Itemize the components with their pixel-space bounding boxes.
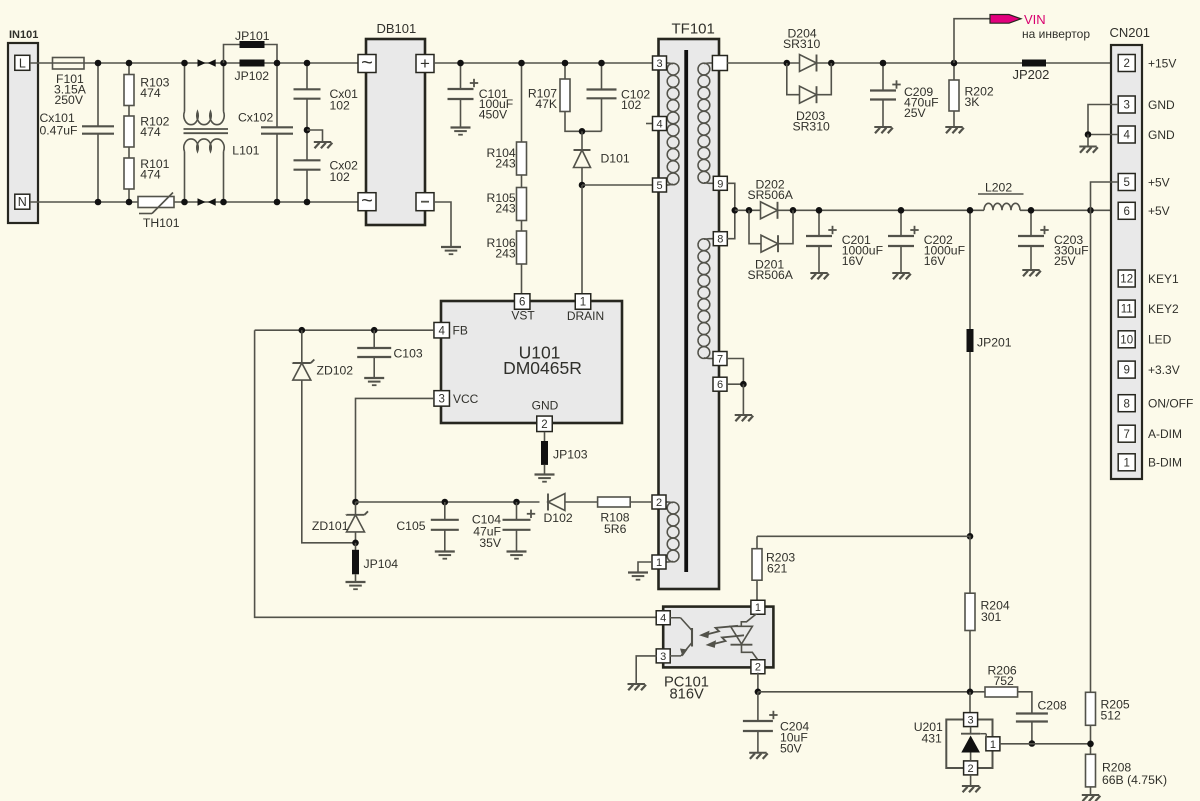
wire DC+ rail [434, 62, 652, 64]
ground DB101 minus [441, 246, 461, 248]
capacitor C105 [444, 502, 446, 520]
terminal ~ bottom-left of DB101 [358, 193, 376, 211]
svg-text:35V: 35V [479, 536, 502, 550]
ground TF101 pin6 [735, 414, 752, 416]
node L-Cx101 [95, 60, 102, 67]
svg-text:1: 1 [656, 557, 662, 569]
VIN arrow to inverter [990, 15, 1021, 24]
pin 4 FB of U101 [434, 322, 450, 338]
aux winding pin2-pin1 [666, 501, 669, 503]
wire drain column [581, 185, 583, 294]
svg-text:2: 2 [968, 763, 974, 775]
svg-text:10: 10 [1120, 334, 1133, 346]
svg-text:3: 3 [968, 715, 974, 727]
ground JP104 [346, 581, 366, 583]
wire pin3 PC101 to ground [636, 656, 657, 684]
ground TF101 pin1 [628, 571, 648, 573]
svg-text:JP104: JP104 [364, 557, 399, 571]
node N-Cx02 [304, 199, 311, 206]
inductor L101 common-mode choke [184, 63, 186, 112]
capacitor C204 [757, 692, 759, 721]
svg-text:474: 474 [140, 125, 161, 139]
pin 1 of PC101 [751, 600, 765, 614]
node R205-R208 [1087, 741, 1094, 748]
pin 2 of U201 [964, 761, 978, 775]
pin 12 of CN201 [1118, 270, 1135, 287]
node D204 cathode [828, 60, 835, 67]
wire pin1 to ground [638, 562, 652, 572]
svg-text:4: 4 [438, 325, 445, 337]
svg-text:~: ~ [361, 52, 373, 74]
resistor R205 [1086, 692, 1096, 725]
node N-L101 right [220, 199, 227, 206]
svg-text:JP202: JP202 [1013, 67, 1050, 82]
node +5V C202 [898, 207, 905, 214]
secondary winding top [709, 62, 714, 64]
diode D102 [547, 494, 549, 511]
zener ZD102 [301, 330, 303, 363]
pin 6 VST of U101 [514, 294, 530, 310]
capacitor C201 [818, 210, 820, 236]
resistor R104 [521, 63, 523, 143]
resistor R208 [1086, 754, 1096, 787]
node +15V C209 [880, 60, 887, 67]
pin 2 of PC101 [751, 660, 765, 674]
inductor L202 [984, 203, 1020, 210]
diode D203 branch [787, 63, 800, 95]
secondary winding pin8-pin7 [709, 238, 714, 240]
node R204 bottom [967, 689, 974, 696]
resistor R108 [598, 497, 631, 507]
capacitor C209 [882, 63, 884, 91]
TL431 symbol [970, 727, 972, 734]
svg-text:12: 12 [1120, 274, 1133, 286]
wire +5V rail [735, 209, 761, 211]
node N-Cx102 [274, 199, 281, 206]
resistor R102 [128, 106, 130, 117]
node +5V C203 [1028, 207, 1035, 214]
svg-text:1: 1 [990, 739, 996, 751]
pin 9 of TF101 [713, 176, 727, 190]
wire pin5 riser [1091, 182, 1119, 210]
pin 5 of TF101 [653, 178, 667, 192]
pin 4 of PC101 [656, 611, 670, 625]
svg-text:SR506A: SR506A [748, 188, 794, 202]
pin 3 VCC of U101 [434, 391, 450, 407]
svg-text:250V: 250V [55, 93, 84, 107]
svg-text:1: 1 [1123, 457, 1129, 469]
svg-text:102: 102 [330, 99, 351, 113]
svg-text:GND: GND [1148, 128, 1175, 142]
node L-Cx102 [274, 60, 281, 67]
terminal + top-right of DB101 [416, 55, 434, 73]
arrow marks on N wire [198, 198, 206, 205]
svg-text:9: 9 [1123, 365, 1129, 377]
svg-text:+15V: +15V [1148, 56, 1176, 70]
LED of PC101 [741, 614, 756, 627]
node D202 anode [746, 207, 753, 214]
svg-text:VIN: VIN [1024, 12, 1046, 27]
zener ZD101 [355, 502, 357, 515]
svg-text:IN101: IN101 [9, 29, 38, 41]
svg-text:5: 5 [656, 180, 662, 192]
jumper JP101 [240, 41, 265, 48]
svg-text:3: 3 [660, 651, 666, 663]
svg-text:16V: 16V [924, 254, 947, 268]
svg-text:L: L [19, 56, 26, 70]
svg-text:C105: C105 [396, 519, 425, 533]
node R203 tap [967, 533, 974, 540]
svg-text:102: 102 [621, 98, 642, 112]
svg-text:DB101: DB101 [377, 21, 417, 36]
svg-text:GND: GND [532, 399, 559, 413]
wire D101 to TF pin 5 [582, 184, 652, 186]
terminal - bottom-right of DB101 [416, 193, 434, 211]
pin 3 of TF101 [653, 56, 667, 70]
node L-R103 [126, 60, 133, 67]
node D202 cathode [790, 207, 797, 214]
node D101 anode / TF pin5 / drain [579, 182, 586, 189]
node D204 anode [784, 60, 791, 67]
wire feedback bottom row [758, 691, 985, 693]
svg-text:ZD102: ZD102 [317, 364, 354, 378]
svg-text:на инвертор: на инвертор [1022, 27, 1090, 41]
svg-text:11: 11 [1121, 304, 1133, 316]
node +15V R202 [951, 60, 958, 67]
svg-text:7: 7 [1123, 429, 1129, 441]
bridge rectifier DB101 [366, 39, 425, 225]
svg-text:SR506A: SR506A [748, 268, 794, 282]
wire CN201 GND pins [1088, 105, 1118, 135]
capacitor Cx102 [276, 63, 278, 127]
node DC+ C102 [598, 60, 605, 67]
pin 2 of CN201 [1118, 55, 1135, 72]
svg-text:16V: 16V [842, 254, 865, 268]
svg-text:4: 4 [1123, 130, 1130, 142]
node CN201 GND [1085, 131, 1092, 138]
svg-text:431: 431 [922, 732, 943, 746]
pin 1 of CN201 [1118, 454, 1135, 471]
svg-text:0.47uF: 0.47uF [40, 124, 78, 138]
svg-text:50V: 50V [780, 741, 803, 755]
resistor R202 [953, 63, 955, 81]
svg-text:L101: L101 [232, 144, 259, 158]
wire pin9-pin8 join [727, 183, 735, 238]
svg-text:SR310: SR310 [783, 37, 820, 51]
svg-text:8: 8 [1123, 398, 1129, 410]
capacitor C202 [900, 210, 902, 236]
pin 2 of TF101 [652, 495, 666, 509]
svg-text:243: 243 [495, 202, 516, 216]
terminal L of IN101 [15, 55, 30, 70]
node FB ZD102 [299, 327, 306, 334]
node +5V JP201 [967, 207, 974, 214]
svg-text:7: 7 [717, 353, 723, 365]
resistor R204 [965, 593, 975, 630]
resistor R206 [985, 687, 1018, 697]
svg-text:FB: FB [453, 324, 468, 338]
svg-text:+5V: +5V [1148, 175, 1170, 189]
svg-text:2: 2 [541, 419, 547, 431]
wire +15V rail [727, 62, 800, 64]
diode D202 [761, 202, 778, 219]
capacitor C208 [1016, 712, 1048, 714]
node R107-C102-D101 [579, 128, 586, 135]
shunt regulator U201 431 [946, 720, 992, 769]
wire N line [30, 201, 358, 203]
node N-R101 [126, 199, 133, 206]
jumper JP104 [355, 543, 357, 550]
pin 1 of U201 [986, 737, 1000, 751]
capacitor C101 [460, 63, 462, 89]
svg-text:4: 4 [656, 118, 662, 130]
wire U201 cathode [969, 692, 971, 713]
pin 3 of CN201 [1118, 96, 1135, 113]
wire feedback loop to optocoupler [255, 330, 657, 617]
core of TF101 [684, 50, 688, 572]
connector IN101 [8, 43, 38, 223]
ground R208 [1082, 794, 1099, 796]
svg-text:25V: 25V [904, 106, 927, 120]
node C105 row [442, 499, 449, 506]
pin 9 of CN201 [1118, 361, 1135, 378]
node L-L101 left [181, 60, 188, 67]
svg-text:512: 512 [1101, 708, 1122, 722]
svg-text:1: 1 [580, 297, 586, 309]
wire R203 row [757, 536, 970, 593]
svg-text:2: 2 [755, 662, 761, 674]
svg-text:Cx102: Cx102 [238, 111, 273, 125]
wire U201 anode to ground [970, 775, 972, 786]
svg-text:243: 243 [495, 247, 516, 261]
ground U201 [962, 785, 979, 787]
svg-text:LED: LED [1148, 333, 1172, 347]
pin 4 of CN201 [1118, 126, 1135, 143]
svg-text:6: 6 [519, 297, 525, 309]
capacitor Cx01 [306, 63, 308, 89]
op-amp U101 DM0465R controller IC [441, 301, 622, 423]
pin 8 of TF101 [713, 232, 727, 246]
svg-text:JP101: JP101 [235, 29, 270, 43]
pin 5 of CN201 [1118, 174, 1135, 191]
node +5V tap [732, 207, 739, 214]
wire JP101 loop [224, 45, 278, 64]
svg-text:A-DIM: A-DIM [1148, 427, 1182, 441]
pin 8 of CN201 [1118, 395, 1135, 412]
pin 7 of CN201 [1118, 425, 1135, 442]
phototransistor of PC101 [670, 617, 681, 619]
svg-text:1: 1 [755, 602, 761, 614]
pin 6 of TF101 [713, 377, 727, 391]
svg-text:L202: L202 [985, 180, 1012, 194]
pin 2 GND of U101 [537, 416, 553, 432]
svg-text:450V: 450V [479, 107, 508, 121]
pin 1 of TF101 [652, 555, 666, 569]
svg-text:TF101: TF101 [672, 20, 715, 37]
svg-text:JP103: JP103 [553, 448, 588, 462]
node +5V C201 [816, 207, 823, 214]
svg-text:TH101: TH101 [143, 216, 180, 230]
svg-text:N: N [18, 195, 27, 209]
primary winding pin3-pin5 [666, 62, 669, 64]
pin 6 of CN201 [1118, 202, 1135, 219]
svg-text:VST: VST [511, 309, 535, 323]
wire R206 to C208 [1018, 692, 1032, 713]
node ZD101 anode [352, 540, 359, 547]
diode D201 branch [749, 210, 761, 243]
node L-L101 right [220, 60, 227, 67]
capacitor C103 [373, 330, 375, 348]
wire GND stub [1087, 135, 1089, 147]
svg-text:ON/OFF: ON/OFF [1148, 397, 1193, 411]
svg-text:3: 3 [656, 58, 662, 70]
svg-text:8: 8 [717, 234, 723, 246]
svg-text:ZD101: ZD101 [312, 519, 349, 533]
resistor R105 [521, 175, 523, 188]
wire VCC supply row [356, 501, 540, 503]
node N-Cx101 [95, 199, 102, 206]
jumper JP102 [240, 60, 265, 67]
svg-text:C208: C208 [1038, 698, 1067, 712]
resistor R203 [756, 536, 758, 549]
wire pin7-pin6 join [727, 359, 743, 385]
resistor R107 [564, 63, 566, 80]
wire PC101 pin2 down [757, 673, 759, 692]
svg-text:+: + [420, 54, 430, 73]
svg-text:KEY1: KEY1 [1148, 272, 1179, 286]
svg-text:6: 6 [717, 379, 723, 391]
node DC+ C101 [457, 60, 464, 67]
svg-text:25V: 25V [1054, 254, 1077, 268]
terminal ~ top-left of DB101 [358, 55, 376, 73]
svg-text:C103: C103 [394, 347, 423, 361]
svg-text:474: 474 [140, 168, 161, 182]
ground PC101 pin3 [628, 683, 645, 685]
pin 4 of TF101 [646, 123, 653, 125]
capacitor C203 [1030, 210, 1032, 236]
capacitor C102 [601, 63, 603, 90]
svg-text:3K: 3K [965, 95, 980, 109]
pin 11 of CN201 [1118, 300, 1135, 317]
resistor R103 [128, 63, 130, 75]
light arrows of PC101 [699, 631, 710, 639]
ground Cx mid [314, 141, 331, 143]
svg-text:VCC: VCC [453, 392, 479, 406]
svg-text:D101: D101 [601, 152, 630, 166]
wire VCC row [356, 398, 434, 502]
svg-text:301: 301 [981, 610, 1002, 624]
svg-text:B-DIM: B-DIM [1148, 456, 1182, 470]
jumper JP201 [967, 329, 974, 352]
svg-text:SR310: SR310 [793, 120, 830, 134]
svg-text:5: 5 [1123, 177, 1129, 189]
svg-text:GND: GND [1148, 98, 1175, 112]
node VCC node [352, 499, 359, 506]
svg-text:2: 2 [656, 497, 662, 509]
svg-text:KEY2: KEY2 [1148, 302, 1179, 316]
resistor R106 [521, 221, 523, 232]
terminal N of IN101 [15, 194, 30, 209]
node DC+ R107 [562, 60, 569, 67]
node L-Cx01 [304, 60, 311, 67]
transformer TF101 [659, 39, 720, 589]
pin 10 of CN201 [1118, 331, 1135, 348]
fuse F101 [53, 58, 85, 70]
svg-text:621: 621 [767, 562, 788, 576]
svg-text:752: 752 [994, 674, 1015, 688]
jumper JP103 [544, 432, 546, 441]
svg-text:9: 9 [717, 178, 723, 190]
svg-text:+3.3V: +3.3V [1148, 363, 1180, 377]
svg-text:4: 4 [660, 613, 666, 625]
node Cx01-Cx02 midpoint [304, 127, 311, 134]
wire VIN riser [954, 19, 990, 63]
node C208 bottom [1029, 740, 1036, 747]
node DC+ R104 [518, 60, 525, 67]
pin 7 of TF101 [713, 352, 727, 366]
node C104 row [513, 499, 520, 506]
capacitor Cx02 [306, 130, 308, 160]
top-right terminal of TF101 [712, 56, 727, 71]
svg-text:47K: 47K [535, 97, 557, 111]
svg-text:JP201: JP201 [977, 336, 1012, 350]
wire FB row [255, 329, 434, 331]
node N-L101 left [181, 199, 188, 206]
optocoupler PC101 [663, 607, 773, 668]
svg-text:DM0465R: DM0465R [503, 358, 582, 378]
jumper JP202 [1022, 60, 1046, 67]
capacitor Cx101 [97, 63, 99, 126]
svg-text:DRAIN: DRAIN [567, 309, 604, 323]
diode D204 [800, 55, 817, 72]
svg-text:~: ~ [361, 190, 373, 212]
thermistor TH101 [138, 197, 174, 208]
svg-text:474: 474 [140, 86, 161, 100]
svg-text:102: 102 [330, 170, 351, 184]
svg-text:243: 243 [495, 157, 516, 171]
svg-text:6: 6 [1123, 206, 1129, 218]
wire DB101 minus to ground [434, 202, 451, 246]
svg-text:2: 2 [1123, 58, 1129, 70]
arrow marks on L wire [198, 59, 206, 66]
resistor R101 [128, 147, 130, 159]
svg-text:JP102: JP102 [235, 69, 270, 83]
svg-text:3: 3 [438, 394, 444, 406]
diode D101 [581, 131, 583, 150]
svg-text:3: 3 [1123, 100, 1129, 112]
ground CN201 [1079, 146, 1096, 148]
svg-text:816V: 816V [670, 687, 705, 703]
svg-text:+5V: +5V [1148, 204, 1170, 218]
wire JP201 column [969, 210, 971, 329]
wire pin6 to ground [742, 384, 744, 414]
ground JP103 [535, 473, 555, 475]
pin 3 of U201 [964, 713, 978, 727]
wire +5V to R205 column [1090, 210, 1092, 692]
node FB C103 [371, 327, 378, 334]
wire L line [30, 62, 358, 64]
svg-text:CN201: CN201 [1110, 25, 1150, 40]
node pin6 join [740, 381, 747, 388]
svg-text:D102: D102 [544, 511, 573, 525]
svg-text:5R6: 5R6 [604, 522, 627, 536]
capacitor C104 [516, 502, 518, 520]
connector CN201 [1111, 45, 1142, 479]
wire to midpoint ground [307, 130, 323, 142]
wire U201 ref row [1000, 743, 1091, 745]
node PC101 pin2 [755, 689, 762, 696]
svg-text:66B (4.75K): 66B (4.75K) [1102, 773, 1167, 787]
